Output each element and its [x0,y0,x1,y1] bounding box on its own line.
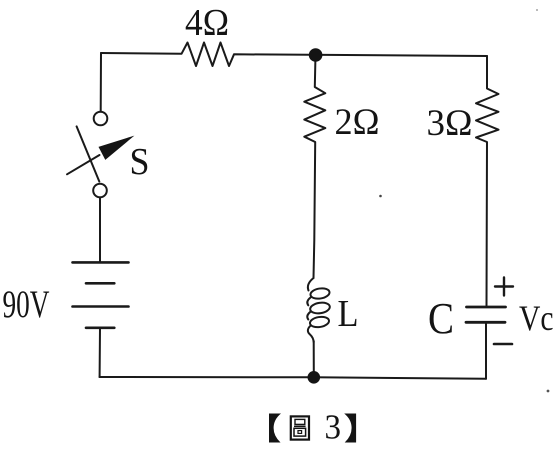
svg-text:2Ω: 2Ω [335,102,380,143]
svg-text:3Ω: 3Ω [427,103,473,144]
svg-text:4Ω: 4Ω [185,2,229,44]
svg-text:C: C [428,294,454,343]
svg-text:L: L [338,293,359,335]
svg-text:S: S [130,141,150,183]
svg-text:3: 3 [325,408,342,447]
svg-text:Vc: Vc [519,298,554,338]
svg-text:90V: 90V [3,283,50,326]
